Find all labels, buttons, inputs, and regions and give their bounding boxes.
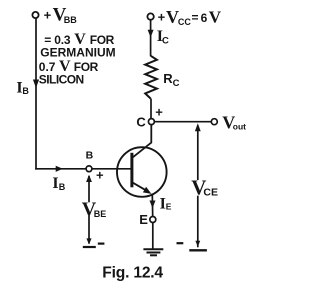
- VBE bottom bar: [83, 246, 96, 248]
- wire: node C to Vout: [154, 121, 211, 123]
- svg-text:C: C: [162, 36, 169, 47]
- label +VBB: [44, 5, 78, 26]
- VBE measure line: [88, 176, 90, 244]
- svg-text:CE: CE: [203, 187, 218, 199]
- minus at VCE: [177, 242, 184, 244]
- svg-text:E: E: [139, 212, 148, 227]
- svg-text:6: 6: [201, 11, 208, 25]
- svg-text:GERMANIUM: GERMANIUM: [40, 45, 115, 59]
- svg-text:out: out: [233, 121, 246, 131]
- transistor emitter lead: [133, 183, 148, 192]
- emitter arrowhead: [143, 187, 152, 194]
- svg-text:+: +: [44, 7, 52, 22]
- VCE bottom bar: [189, 249, 207, 251]
- transistor base bar: [130, 153, 133, 188]
- resistor RC zigzag: [145, 56, 157, 99]
- wire: emitter down to node E: [151, 194, 153, 217]
- wire: node B to transistor base bar: [92, 168, 131, 170]
- IC arrowhead: [148, 30, 154, 38]
- label RC: [163, 71, 179, 89]
- transistor Q1 circle: [117, 147, 167, 197]
- wire: VCC down to resistor: [150, 20, 152, 56]
- svg-text:+: +: [158, 9, 166, 24]
- svg-text:C: C: [136, 115, 146, 130]
- svg-text:I: I: [52, 175, 58, 192]
- minus at VBE: [98, 243, 105, 245]
- IE arrowhead: [150, 201, 156, 209]
- wire: node E to ground: [152, 223, 154, 249]
- label IC: [157, 28, 169, 46]
- VBE bottom arrowhead: [86, 238, 91, 244]
- label VCE: [192, 180, 204, 196]
- VCE top arrowhead: [195, 123, 201, 131]
- IB arrowhead on base wire: [56, 166, 63, 172]
- node C: [148, 119, 154, 125]
- label IB (left wire): [16, 80, 29, 97]
- note text: 0.3V germanium / 0.7V silicon: [39, 31, 116, 86]
- label VBE: [83, 202, 95, 216]
- node E: [150, 217, 156, 223]
- terminal +VCC: [147, 13, 153, 19]
- wire: base horizontal: [35, 168, 86, 170]
- VCE measure line: [197, 127, 199, 247]
- ground: [143, 249, 163, 255]
- svg-text:E: E: [166, 202, 172, 212]
- wire: VBB down to corner: [35, 18, 37, 169]
- VCE bottom arrowhead: [195, 241, 200, 247]
- svg-text:SILICON: SILICON: [39, 72, 84, 86]
- svg-text:B: B: [59, 182, 66, 192]
- label +VCC = 6 V: [158, 7, 222, 27]
- svg-text:C: C: [173, 78, 180, 89]
- svg-text:B: B: [86, 150, 94, 162]
- svg-text:BB: BB: [64, 15, 77, 25]
- svg-text:+: +: [155, 105, 163, 120]
- svg-text:CC: CC: [178, 17, 191, 27]
- node B: [86, 166, 92, 172]
- wire: resistor to node C: [150, 99, 152, 119]
- transistor collector lead: [133, 123, 152, 157]
- VBE top arrowhead: [86, 175, 92, 182]
- IB arrowhead on left wire: [33, 80, 39, 89]
- svg-text:=: =: [192, 11, 199, 25]
- svg-text:V: V: [209, 8, 222, 27]
- label Vout: [222, 112, 246, 132]
- svg-text:Fig. 12.4: Fig. 12.4: [102, 264, 163, 281]
- svg-text:BE: BE: [94, 209, 107, 219]
- terminal +VBB: [32, 12, 38, 18]
- label IE: [160, 196, 172, 213]
- svg-text:B: B: [22, 86, 29, 96]
- terminal Vout: [211, 119, 217, 125]
- label IB (base wire): [52, 175, 65, 192]
